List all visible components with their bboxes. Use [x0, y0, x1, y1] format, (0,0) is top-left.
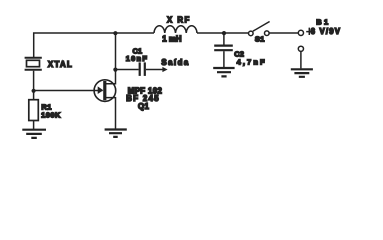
ground below Q1 source — [105, 130, 127, 137]
svg-text:X RF: X RF — [167, 15, 191, 24]
output arrow head Saida — [162, 67, 167, 72]
capacitor C1 right plate — [144, 62, 146, 76]
wire battery negative to ground — [300, 52, 302, 69]
transistor Q1 channel bar — [103, 81, 106, 100]
node junction dot rail to C2 — [222, 31, 226, 35]
node junction dot drain to C1 — [113, 68, 117, 72]
svg-text:Q1: Q1 — [138, 102, 149, 111]
battery B1 negative terminal — [298, 46, 303, 51]
switch S1 right terminal — [265, 31, 270, 36]
svg-text:6 V/9V: 6 V/9V — [311, 27, 342, 36]
crystal XTAL body — [27, 60, 40, 66]
svg-text:100K: 100K — [41, 111, 61, 120]
wire gate node to Q1 gate — [34, 90, 103, 92]
ground below R1 — [22, 130, 46, 138]
capacitor C2 bottom plate — [214, 49, 233, 51]
svg-text:1 mH: 1 mH — [162, 35, 182, 44]
switch S1 lever — [253, 22, 270, 32]
node junction dot drain to rail — [113, 31, 117, 35]
battery B1 plus sign — [306, 28, 313, 35]
ground below battery B1 — [291, 69, 313, 77]
inductor XRF coil humps — [154, 26, 197, 33]
switch S1 left terminal — [249, 31, 254, 36]
wire drain node to C1 — [116, 69, 139, 71]
svg-text:10nF: 10nF — [126, 54, 148, 63]
crystal XTAL top plate — [25, 57, 42, 59]
transistor Q1 circle — [94, 80, 116, 102]
svg-text:Saída: Saída — [161, 58, 189, 67]
svg-text:XTAL: XTAL — [48, 60, 73, 69]
capacitor C1 left plate — [139, 62, 141, 76]
wire C2 to ground — [223, 51, 225, 67]
wire R1 to ground — [33, 121, 35, 130]
svg-text:S1: S1 — [255, 35, 265, 44]
transistor Q1 drain lead — [106, 33, 116, 84]
ground below C2 — [213, 68, 234, 76]
crystal XTAL bottom plate — [25, 69, 42, 71]
transistor Q1 source lead — [106, 98, 116, 130]
node junction dot at gate/R1 — [31, 89, 35, 93]
battery B1 positive terminal — [298, 30, 303, 35]
transistor Q1 gate arrow — [98, 86, 104, 94]
svg-text:4,7nF: 4,7nF — [237, 57, 267, 66]
wire rail from inductor to switch S1 — [197, 32, 248, 34]
wire rail node down to C2 — [223, 33, 225, 45]
svg-text:B 1: B 1 — [316, 18, 328, 27]
resistor R1 body — [29, 100, 39, 121]
capacitor C2 top plate — [214, 44, 233, 46]
wire from S1 to battery terminal — [269, 32, 298, 34]
wire top-left corner from XTAL up to rail — [34, 33, 154, 57]
wire C1 to output arrow — [146, 69, 163, 71]
wire XTAL down to gate node — [33, 71, 35, 100]
